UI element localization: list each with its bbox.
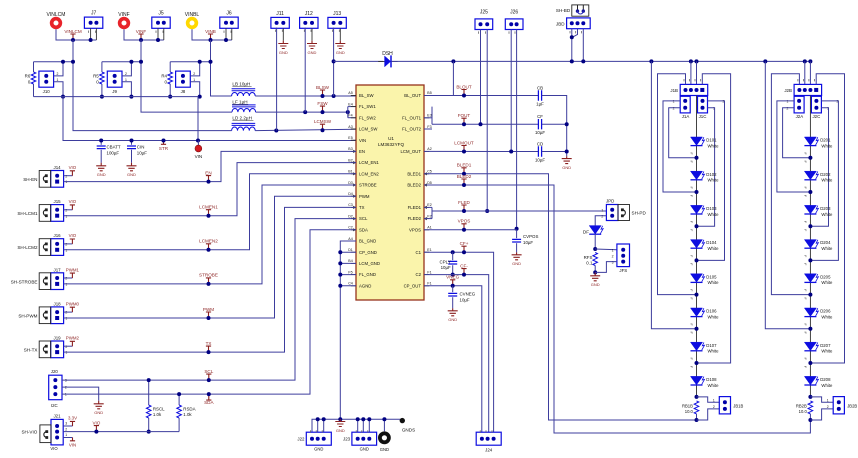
junction <box>99 139 103 143</box>
pin markers <box>480 430 492 432</box>
ground CBATT <box>96 163 106 171</box>
svg-text:FL_SW2: FL_SW2 <box>359 115 376 120</box>
svg-text:A5: A5 <box>348 91 352 95</box>
svg-text:LCM_GND: LCM_GND <box>359 261 380 266</box>
svg-text:CF+: CF+ <box>460 241 469 246</box>
wire J13 pin2 to gnd <box>339 28 341 40</box>
svg-text:F1: F1 <box>427 270 431 274</box>
svg-text:EN: EN <box>205 170 211 175</box>
svg-text:White: White <box>821 314 833 319</box>
junction CPLY top <box>451 250 455 254</box>
LED D204 <box>804 240 833 251</box>
svg-text:J14: J14 <box>54 165 62 170</box>
junction J13 to BLSW <box>332 94 336 98</box>
wire J2A pin1 to D202 tap <box>777 101 811 192</box>
svg-text:D106: D106 <box>706 309 717 314</box>
svg-text:E4: E4 <box>348 102 352 106</box>
svg-text:J16: J16 <box>54 233 62 238</box>
svg-text:2: 2 <box>65 386 67 390</box>
svg-text:LCMSW: LCMSW <box>314 119 332 124</box>
wire JB2B pin1 <box>810 397 833 402</box>
svg-text:2: 2 <box>65 208 67 212</box>
junction LED string tap <box>695 361 699 365</box>
wire J12 pin1 to FSW <box>304 28 306 113</box>
svg-text:1: 1 <box>601 208 603 212</box>
svg-text:PWM: PWM <box>359 194 370 199</box>
wire VPOS <box>424 229 517 231</box>
junction LED string tap <box>695 190 699 194</box>
wire RSDA bottom <box>178 418 180 432</box>
svg-text:1: 1 <box>65 317 67 321</box>
jumper SH-BD <box>572 5 589 16</box>
junction <box>139 60 143 64</box>
wire VIO rail <box>63 431 179 433</box>
svg-text:2: 2 <box>57 72 59 76</box>
svg-text:White: White <box>708 178 720 183</box>
junction LED string tap <box>808 156 812 160</box>
svg-text:FL_SW1: FL_SW1 <box>359 104 376 109</box>
ground CIN <box>127 163 137 171</box>
junction rail riser <box>689 59 693 63</box>
pin markers <box>509 31 515 33</box>
svg-text:CVNEG: CVNEG <box>460 291 476 296</box>
svg-text:2: 2 <box>673 107 675 111</box>
junction <box>338 417 342 421</box>
svg-text:2: 2 <box>65 174 67 178</box>
wire J22 pin2 riser <box>317 419 319 432</box>
svg-text:1: 1 <box>713 398 715 402</box>
svg-text:LCM_SW: LCM_SW <box>359 127 378 132</box>
wire JB1B pin2 <box>697 409 720 420</box>
svg-text:FL_GND: FL_GND <box>359 272 376 277</box>
svg-text:A2: A2 <box>427 147 431 151</box>
junction <box>367 417 371 421</box>
resistor R6 <box>31 72 36 84</box>
ground J12 <box>307 41 317 49</box>
junction <box>322 417 326 421</box>
connector J18 <box>51 307 64 324</box>
svg-text:I2C: I2C <box>51 403 58 408</box>
connector J2C <box>811 96 821 113</box>
wire J22 pin3 riser <box>323 419 325 432</box>
wire FLED bracket <box>431 207 433 218</box>
svg-text:White: White <box>821 280 833 285</box>
svg-text:1: 1 <box>673 100 675 104</box>
svg-text:100µF: 100µF <box>107 151 120 156</box>
svg-text:White: White <box>708 280 720 285</box>
junction <box>570 35 574 39</box>
connector JB2B <box>833 397 844 414</box>
svg-text:FL_OUT1: FL_OUT1 <box>402 115 421 120</box>
svg-text:J7: J7 <box>91 11 97 17</box>
LED D101 <box>691 137 720 148</box>
connector JPD <box>606 205 618 221</box>
svg-text:SH-VIO: SH-VIO <box>21 429 37 434</box>
junction <box>129 60 133 64</box>
wire BL_OUT <box>424 95 538 97</box>
wire J2C pin1 to D204 tap <box>810 101 838 261</box>
svg-text:CVPOS: CVPOS <box>523 234 538 239</box>
junction LED string tap <box>808 258 812 262</box>
svg-text:BL_OUT: BL_OUT <box>404 93 421 98</box>
junction rail riser outer <box>649 59 653 63</box>
wire CF to gnd rail <box>542 123 567 125</box>
wire C1 CF+ to J24 <box>424 252 494 432</box>
svg-text:U1: U1 <box>388 136 394 141</box>
connector J16 <box>51 239 64 256</box>
wire J21 pin1 stub <box>63 437 72 439</box>
wire ground bus <box>312 419 402 432</box>
wire CP_OUT VNEG to J24 <box>424 286 482 432</box>
connector J13 <box>328 17 346 28</box>
wire J6 pin1 <box>225 28 227 40</box>
svg-text:J15: J15 <box>54 199 62 204</box>
junction RFS gnd <box>593 270 597 274</box>
svg-text:R5: R5 <box>93 74 99 79</box>
svg-text:B2: B2 <box>348 158 352 162</box>
svg-text:LCM_EN1: LCM_EN1 <box>359 160 379 165</box>
wire J14 pin2 stub <box>64 175 73 177</box>
connector J6 <box>220 17 238 28</box>
junction RB2B bottom <box>808 418 812 422</box>
connector JB1B <box>719 397 730 414</box>
connector J5 <box>152 17 170 28</box>
svg-text:J2A: J2A <box>796 114 804 119</box>
wire jumper pin2 riser <box>122 62 131 76</box>
svg-text:D5: D5 <box>427 181 432 185</box>
svg-text:VINBL: VINBL <box>185 12 200 18</box>
svg-text:LCMEN2: LCMEN2 <box>199 239 218 244</box>
svg-text:VINLCM: VINLCM <box>64 29 82 34</box>
svg-text:J22: J22 <box>297 436 305 441</box>
svg-text:2: 2 <box>65 243 67 247</box>
capacitor CF <box>538 119 541 129</box>
wire group top <box>102 61 141 63</box>
svg-text:VIO: VIO <box>69 233 77 238</box>
junction LED string tap <box>808 361 812 365</box>
svg-text:BLED1: BLED1 <box>457 163 472 168</box>
wire FL_OUT drop <box>431 112 433 124</box>
svg-text:VIN: VIN <box>195 154 203 159</box>
wire JB2B pin2 <box>810 409 833 420</box>
svg-text:D205: D205 <box>820 274 831 279</box>
wire JBD pin2 join <box>572 29 578 38</box>
wire J17 pin2 stub <box>64 277 73 279</box>
wire LCMEN1 to U1 <box>64 163 356 216</box>
tap tick marks <box>804 153 806 368</box>
junction LED string tap <box>695 258 699 262</box>
junction RB1B top <box>695 395 699 399</box>
junction LED string tap <box>808 327 812 331</box>
svg-text:GND: GND <box>512 261 521 266</box>
wire J1B pin4 to D107 tap <box>697 74 731 363</box>
connector J20 <box>49 375 62 400</box>
wire FLED2 stub <box>424 218 432 220</box>
wire J25 pin1 to FOUT <box>480 30 482 125</box>
ground CVNEG <box>448 308 458 315</box>
wire J21 pin3 stub <box>63 425 72 427</box>
svg-text:White: White <box>821 349 833 354</box>
jumper SH-PWM <box>39 307 51 324</box>
wire LCMSW <box>255 129 356 130</box>
svg-text:White: White <box>708 246 720 251</box>
svg-text:D105: D105 <box>706 274 717 279</box>
U1 pin stubs <box>351 95 429 285</box>
svg-text:JPD: JPD <box>606 198 614 203</box>
svg-text:EN: EN <box>359 149 365 154</box>
svg-text:J19: J19 <box>54 336 62 341</box>
svg-text:LB 10µH: LB 10µH <box>232 82 250 87</box>
svg-text:2: 2 <box>65 277 67 281</box>
wire jumper pin2 riser <box>54 62 63 76</box>
connector J11 <box>271 17 289 28</box>
junction RB2B top <box>808 395 812 399</box>
svg-text:GND: GND <box>360 447 369 452</box>
svg-text:2: 2 <box>65 345 67 349</box>
junction <box>356 417 360 421</box>
svg-text:1: 1 <box>787 100 789 104</box>
svg-text:J21: J21 <box>53 413 61 418</box>
svg-text:PWM: PWM <box>203 307 214 312</box>
svg-text:BLSW: BLSW <box>316 85 330 90</box>
terminal VINF <box>120 19 129 28</box>
wire CVNEG stub <box>452 286 454 292</box>
ground CVPOS <box>512 252 522 259</box>
svg-text:LCMOUT: LCMOUT <box>454 140 474 145</box>
connector JFS <box>617 244 630 267</box>
svg-text:JBD: JBD <box>556 22 565 27</box>
svg-text:RFS: RFS <box>584 255 593 260</box>
junction CPLY bottom <box>451 273 455 277</box>
wire BLED2 to right LED string <box>424 185 810 433</box>
wire FLED1 stub <box>424 206 432 208</box>
wire FL_OUT bracket <box>431 107 433 118</box>
wire SCL to U1 <box>62 219 356 381</box>
wire RB2B bottom <box>809 414 811 420</box>
jumper SH-LCM1 <box>39 205 51 222</box>
junction <box>196 139 200 143</box>
svg-text:SCL: SCL <box>204 369 213 374</box>
svg-text:1: 1 <box>827 398 829 402</box>
svg-text:B5: B5 <box>427 91 431 95</box>
svg-text:White: White <box>821 178 833 183</box>
wire J11 pin1 to LCMSW <box>276 28 278 131</box>
pin markers <box>89 31 96 33</box>
svg-text:1: 1 <box>65 283 67 287</box>
wire J1A pin1 to D102 tap <box>663 101 697 192</box>
pin markers <box>479 31 486 33</box>
junction <box>509 150 513 154</box>
svg-text:1: 1 <box>65 393 67 397</box>
wire J2B pin4 to D207 tap <box>810 74 844 363</box>
svg-text:GND: GND <box>279 50 288 55</box>
wire J1C pin2 to D103 tap <box>697 108 715 226</box>
wire PWM to U1 <box>64 196 356 318</box>
wire VINBL terminal to J6 <box>192 29 232 40</box>
LED D105 <box>691 274 720 285</box>
svg-text:C2: C2 <box>416 272 422 277</box>
wire resistor top stub <box>101 62 103 72</box>
svg-text:F3: F3 <box>427 125 431 129</box>
LED D103 <box>691 205 720 216</box>
svg-text:GND: GND <box>314 447 323 452</box>
wire SDA to U1 <box>62 230 356 394</box>
LED D207 <box>804 342 833 353</box>
svg-text:1: 1 <box>65 351 67 355</box>
junction rail riser outer <box>763 59 767 63</box>
svg-text:LM3632YFQ: LM3632YFQ <box>378 142 404 147</box>
pin markers <box>570 31 582 33</box>
svg-text:JFS: JFS <box>619 268 627 273</box>
connector J1A <box>680 96 690 113</box>
svg-text:E1: E1 <box>427 248 431 252</box>
junction LED string tap <box>808 224 812 228</box>
wire jumper pin1 riser <box>54 82 63 97</box>
junction <box>147 430 151 434</box>
terminal GNDS <box>400 418 405 423</box>
LED D205 <box>804 274 833 285</box>
resistor R4 <box>168 72 173 84</box>
wire J19 pin2 stub <box>64 345 73 347</box>
junction rail to BLOUT <box>451 59 455 63</box>
wire J12 pin2 to gnd <box>311 28 313 40</box>
wire J15 pin2 stub <box>64 209 73 211</box>
wire J26 pin1 to LCMOUT <box>510 30 512 152</box>
ground output caps <box>562 156 572 163</box>
junction <box>485 209 489 213</box>
svg-text:2: 2 <box>787 107 789 111</box>
svg-text:TX: TX <box>206 341 212 346</box>
junction <box>338 261 342 265</box>
junction <box>156 38 160 42</box>
junction <box>61 95 65 99</box>
svg-text:CP_GND: CP_GND <box>359 250 377 255</box>
wire JPD pin2 to DF <box>595 216 606 226</box>
junction <box>129 95 133 99</box>
svg-text:White: White <box>708 212 720 217</box>
svg-text:J9: J9 <box>112 89 117 94</box>
connector J14 <box>51 171 64 188</box>
svg-text:0.1: 0.1 <box>586 261 593 266</box>
wire J23 pin2 riser <box>362 419 364 432</box>
svg-text:D107: D107 <box>706 343 717 348</box>
svg-text:F4: F4 <box>348 114 352 118</box>
svg-text:VIO: VIO <box>69 165 77 170</box>
inductor LB <box>232 89 256 91</box>
wire JBD pin3 to rail <box>582 29 584 62</box>
svg-text:BLED2: BLED2 <box>407 183 421 188</box>
svg-text:E3: E3 <box>427 114 431 118</box>
svg-text:10µF: 10µF <box>535 157 545 162</box>
svg-text:FLED1: FLED1 <box>408 205 422 210</box>
svg-text:VPOS: VPOS <box>409 227 421 232</box>
wire group top <box>170 61 210 63</box>
svg-text:D3: D3 <box>348 181 353 185</box>
jumper SH-PD <box>618 205 630 221</box>
svg-text:J2C: J2C <box>812 114 820 119</box>
svg-text:FSW: FSW <box>317 101 328 106</box>
wire jumper pin1 riser <box>190 82 199 97</box>
connector J10 <box>39 71 54 87</box>
svg-text:D202: D202 <box>820 172 831 177</box>
wire J2B pin1 to D205 tap <box>771 74 810 295</box>
connector J21 <box>51 419 63 445</box>
svg-text:VINF: VINF <box>118 12 129 18</box>
wire LCMOUT <box>424 150 538 152</box>
svg-text:D104: D104 <box>706 240 717 245</box>
svg-text:10.0: 10.0 <box>685 409 694 414</box>
connector JBD <box>567 18 591 29</box>
svg-text:F2: F2 <box>427 214 431 218</box>
svg-text:1: 1 <box>65 180 67 184</box>
svg-text:VINF: VINF <box>136 29 147 34</box>
svg-text:F5: F5 <box>348 270 352 274</box>
wire J1B pin1 to D105 tap <box>658 74 697 295</box>
svg-text:3: 3 <box>65 421 67 425</box>
wire J1A pin2 to D101 tap <box>669 108 697 158</box>
svg-text:D103: D103 <box>706 206 717 211</box>
wire CBATT stub <box>100 141 102 145</box>
wire LCMEN2 to U1 <box>64 174 356 250</box>
svg-text:2: 2 <box>65 311 67 315</box>
junction LED string tap <box>808 190 812 194</box>
junction rail riser <box>808 59 812 63</box>
wire VINB to LB <box>211 40 232 96</box>
wire C2 CF- to J24 <box>424 275 489 433</box>
wire J23 pin3 riser <box>368 419 370 432</box>
svg-text:E2: E2 <box>427 203 431 207</box>
connector J1C <box>698 96 708 113</box>
connector J7 <box>84 17 102 28</box>
svg-text:DF: DF <box>583 229 589 234</box>
svg-text:J1B: J1B <box>670 88 678 93</box>
wire resistor bottom stub <box>169 84 171 97</box>
wire STROBE to U1 <box>64 185 356 284</box>
svg-text:J18: J18 <box>54 301 62 306</box>
connector J19 <box>51 341 64 358</box>
svg-text:GND: GND <box>336 50 345 55</box>
svg-text:SH-LCM1: SH-LCM1 <box>17 211 38 216</box>
svg-text:1: 1 <box>612 249 614 253</box>
capacitor CB <box>538 90 541 100</box>
svg-text:C4: C4 <box>348 282 353 286</box>
LED D108 <box>691 376 720 387</box>
wire RSCL top <box>148 380 150 405</box>
wire RSDA top <box>178 394 180 405</box>
capacitor CBATT <box>97 146 106 149</box>
junction <box>338 284 342 288</box>
svg-text:J13: J13 <box>333 11 341 17</box>
svg-text:White: White <box>821 212 833 217</box>
junction <box>224 38 228 42</box>
wire FL_SW1 stub <box>348 106 356 108</box>
wire J23 pin1 riser <box>357 419 359 432</box>
svg-text:10µF: 10µF <box>535 130 545 135</box>
resistor RFS <box>593 253 598 266</box>
svg-text:D101: D101 <box>706 138 717 143</box>
svg-text:White: White <box>708 314 720 319</box>
svg-text:White: White <box>708 143 720 148</box>
wire J7 pin1 <box>90 28 92 40</box>
wire J25 pin2 to FLED <box>486 30 488 212</box>
resistor RB2B <box>808 401 813 414</box>
svg-text:J10: J10 <box>43 89 51 94</box>
wire U1 ground pins bracket <box>340 241 356 419</box>
svg-text:White: White <box>821 143 833 148</box>
resistor R5 <box>100 72 105 84</box>
wire FL_SW bracket <box>347 107 349 118</box>
capacitor CD <box>538 146 541 156</box>
